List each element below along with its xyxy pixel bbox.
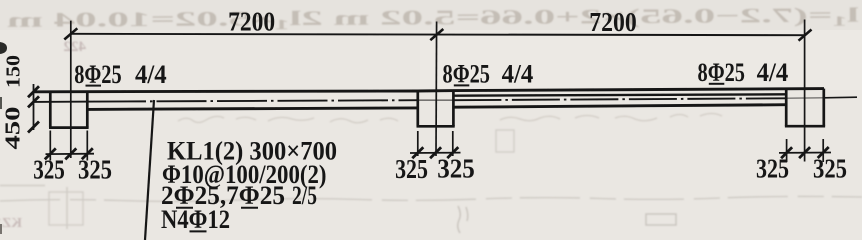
svg-text:325: 325: [756, 154, 789, 184]
faint marks bottom middle: [458, 206, 676, 233]
left vertical dimension line (150/450): [33, 84, 35, 130]
beam top line: [34, 89, 825, 92]
left edge dark blob: [0, 42, 7, 54]
beam centerline through right column (faint): [786, 97, 824, 100]
svg-text:N4Φ12: N4Φ12: [161, 204, 230, 234]
svg-text:150: 150: [3, 55, 25, 88]
dim tick left end: [64, 28, 77, 39]
axis extension line right: [804, 20, 806, 162]
underline of phi line4: [190, 230, 207, 232]
svg-text:4/4: 4/4: [502, 60, 534, 89]
tick at column bottom: [28, 122, 39, 133]
tick at beam top: [28, 86, 39, 97]
top dimension line (7200+7200): [71, 34, 806, 35]
beam bottom line span2: [453, 105, 786, 108]
svg-text:2/5: 2/5: [292, 180, 317, 210]
underlines of phi line3: [176, 207, 193, 209]
column middle (support 2): [417, 90, 455, 126]
left column dimension (325/325): [49, 131, 51, 161]
svg-text:422: 422: [64, 39, 87, 55]
column right (support 3): [785, 89, 825, 127]
axis extension line middle: [435, 22, 438, 157]
svg-text:325: 325: [813, 153, 847, 183]
svg-text:8Φ25: 8Φ25: [74, 60, 122, 89]
beam centerline through middle column (faint): [418, 99, 454, 101]
tick at centerline: [28, 96, 39, 107]
svg-text:325: 325: [33, 155, 65, 185]
svg-text:4/4: 4/4: [757, 58, 789, 87]
dim tick middle: [430, 29, 443, 40]
beam bottom line span1: [87, 108, 418, 110]
right column dimension (325/325): [786, 139, 788, 162]
faint bleed rectangle bottom-left column: [0, 186, 83, 230]
svg-text:325: 325: [437, 154, 475, 184]
svg-text:7200: 7200: [589, 7, 637, 37]
middle column dimension (325/325): [417, 131, 419, 156]
beam second top line span2: [454, 94, 786, 95]
faint wavy line across lower area: [0, 196, 862, 201]
leader line to beam annotation text: [145, 100, 154, 240]
svg-text:325: 325: [78, 154, 112, 184]
beam centerline solid start through left column: [34, 101, 97, 103]
underline of phi label2: [454, 84, 470, 86]
svg-text:KZ1: KZ1: [0, 216, 22, 231]
underline of phi label3: [709, 83, 725, 85]
beam centerline dash-dot span1: [96, 100, 418, 101]
svg-text:8Φ25: 8Φ25: [443, 60, 491, 89]
axis extension line left (grid line through left column): [70, 21, 72, 158]
dim tick right end: [799, 30, 812, 41]
beam centerline dash-dot span2: [453, 98, 786, 100]
faint box right of mid-column: [496, 130, 514, 152]
svg-text:4/4: 4/4: [135, 60, 167, 89]
underline of phi label1: [86, 85, 102, 87]
column left (support 1): [49, 91, 89, 127]
beam centerline tail right of column: [824, 96, 857, 99]
svg-text:7200: 7200: [228, 7, 275, 37]
svg-text:8Φ25: 8Φ25: [698, 58, 746, 87]
faint handwriting squiggles under beam: [178, 114, 722, 123]
svg-text:450: 450: [1, 107, 25, 150]
svg-text:325: 325: [395, 154, 428, 184]
